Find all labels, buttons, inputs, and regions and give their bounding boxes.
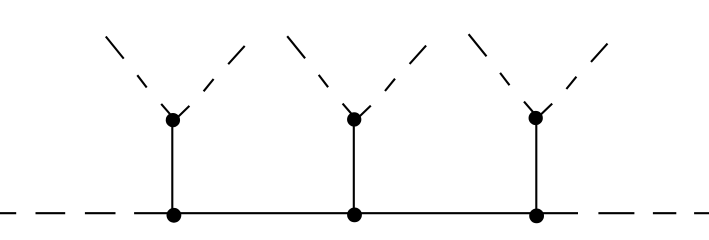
wire: vertical propagator of unit 3 xyxy=(535,118,537,216)
wire: unit 1 upper-right dashed ray, top dash xyxy=(228,46,245,64)
wire: unit 3 upper-right dashed ray, middle dash xyxy=(566,77,576,89)
wire: bottom solid internal line joining lower vertices 1-2-3 xyxy=(134,212,578,214)
wire: vertical propagator of unit 2 xyxy=(353,119,355,214)
wire: unit 1 upper-right dashed ray, stub dash at dot xyxy=(178,106,190,117)
wire: bottom dashed external line (left), dash 1 xyxy=(0,212,16,214)
wire: bottom dashed external line (right), dash 3 xyxy=(694,212,709,214)
wire: unit 1 upper-left dashed ray, top dash xyxy=(106,37,124,59)
wire: unit 3 upper-left dashed ray, middle dash xyxy=(500,73,509,85)
wire: bottom dashed external line (right), dash 2 xyxy=(653,212,676,214)
wire: unit 1 upper-left dashed ray, middle dash xyxy=(137,75,146,87)
node: upper vertex dot 3 xyxy=(529,111,543,125)
node: upper vertex dot 2 xyxy=(347,112,361,126)
wire: unit 2 upper-left dashed ray, stub dash at dot xyxy=(343,104,353,115)
node: upper vertex dot 1 xyxy=(166,113,180,127)
node: lower vertex dot 1 on bottom line xyxy=(167,208,182,223)
wire: unit 3 upper-left dashed ray, stub dash at dot xyxy=(524,102,534,113)
wire: unit 1 upper-right dashed ray, middle dash xyxy=(204,79,214,91)
wire: unit 2 upper-left dashed ray, middle dash xyxy=(319,75,328,87)
wire: unit 3 upper-right dashed ray, stub dash at dot xyxy=(541,104,553,115)
wire: unit 3 upper-left dashed ray, top dash xyxy=(469,34,487,56)
wire: vertical propagator of unit 1 xyxy=(171,120,173,215)
wire: bottom dashed external line (right), dash 1 xyxy=(598,212,634,214)
wire: bottom dashed external line (left), dash 3 xyxy=(85,212,116,214)
wire: unit 2 upper-left dashed ray, top dash xyxy=(287,36,305,58)
wire: bottom dashed external line (left), dash 2 xyxy=(36,212,66,214)
node: lower vertex dot 2 on bottom line xyxy=(347,208,362,223)
wire: unit 2 upper-right dashed ray, middle dash xyxy=(385,79,395,91)
node: lower vertex dot 3 on bottom line xyxy=(529,209,544,224)
wire: unit 2 upper-right dashed ray, top dash xyxy=(410,46,427,64)
wire: unit 2 upper-right dashed ray, stub dash at dot xyxy=(359,106,371,117)
wire: unit 1 upper-left dashed ray, stub dash at dot xyxy=(161,104,171,115)
wire: unit 3 upper-right dashed ray, top dash xyxy=(591,44,608,62)
